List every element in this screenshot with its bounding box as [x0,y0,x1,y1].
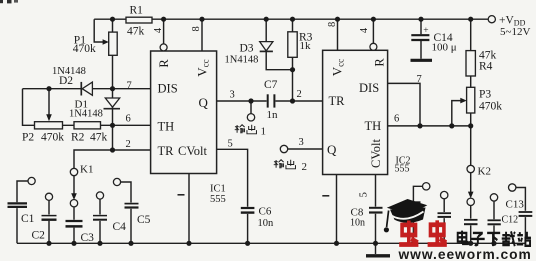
svg-text:4: 4 [359,27,370,33]
svg-text:3: 3 [299,137,304,148]
svg-text:7: 7 [127,81,132,92]
svg-text:TH: TH [365,119,382,133]
svg-text:555: 555 [210,194,226,205]
svg-text:IC1: IC1 [210,184,226,195]
svg-text:C1: C1 [21,213,35,225]
svg-text:1: 1 [261,126,267,138]
svg-text:1N4148: 1N4148 [225,55,259,66]
svg-text:DIS: DIS [158,82,178,96]
svg-text:R1: R1 [130,5,144,17]
svg-text:C12: C12 [502,215,519,226]
svg-text:Q: Q [327,142,337,157]
svg-text:Q: Q [199,95,209,110]
svg-text:2: 2 [297,89,302,100]
svg-text:D2: D2 [59,75,73,87]
svg-text:5: 5 [359,192,370,197]
svg-text:R2: R2 [71,132,85,144]
svg-text:3: 3 [230,90,235,101]
svg-text:K2: K2 [478,166,491,178]
svg-text:6: 6 [394,114,399,125]
svg-text:470k: 470k [41,132,64,144]
svg-text:C6: C6 [259,206,272,218]
svg-text:CVolt: CVolt [178,144,207,158]
svg-text:R: R [373,58,387,67]
svg-text:K1: K1 [80,164,93,176]
svg-text:470k: 470k [73,43,96,55]
svg-text:8: 8 [327,22,338,27]
svg-text:47k: 47k [127,26,145,38]
svg-text:www.eeworm.com: www.eeworm.com [398,247,532,261]
svg-text:R: R [157,59,171,68]
svg-text:10n: 10n [350,218,365,229]
svg-text:5~12V: 5~12V [500,26,530,38]
svg-text:C3: C3 [81,232,95,244]
svg-text:C4: C4 [113,221,127,233]
svg-text:R4: R4 [479,61,493,73]
svg-text:TR: TR [158,144,175,158]
svg-text:2: 2 [126,139,131,150]
svg-text:1N4148: 1N4148 [69,109,103,120]
svg-text:P3: P3 [479,89,491,101]
svg-text:7: 7 [417,74,422,85]
svg-text:10n: 10n [258,218,275,229]
svg-text:TR: TR [329,94,346,108]
svg-text:TH: TH [158,119,175,133]
svg-text:2: 2 [302,161,308,173]
svg-text:C7: C7 [264,79,278,91]
svg-text:CVolt: CVolt [369,139,383,168]
svg-text:1n: 1n [267,109,279,121]
svg-text:C2: C2 [32,230,46,242]
svg-text:555: 555 [395,164,410,175]
svg-text:47k: 47k [90,132,108,144]
svg-text:6: 6 [126,114,131,125]
svg-text:100 μ: 100 μ [432,42,457,54]
svg-text:P2: P2 [22,132,34,144]
svg-text:C5: C5 [137,214,151,226]
svg-text:1k: 1k [300,40,312,52]
svg-text:8: 8 [191,26,202,31]
svg-text:C13: C13 [506,199,525,211]
svg-text:4: 4 [153,27,164,33]
svg-text:DIS: DIS [359,81,379,95]
svg-text:470k: 470k [479,101,502,113]
svg-text:5: 5 [228,139,233,150]
svg-text:+: + [423,26,428,36]
svg-text:D3: D3 [240,43,254,55]
